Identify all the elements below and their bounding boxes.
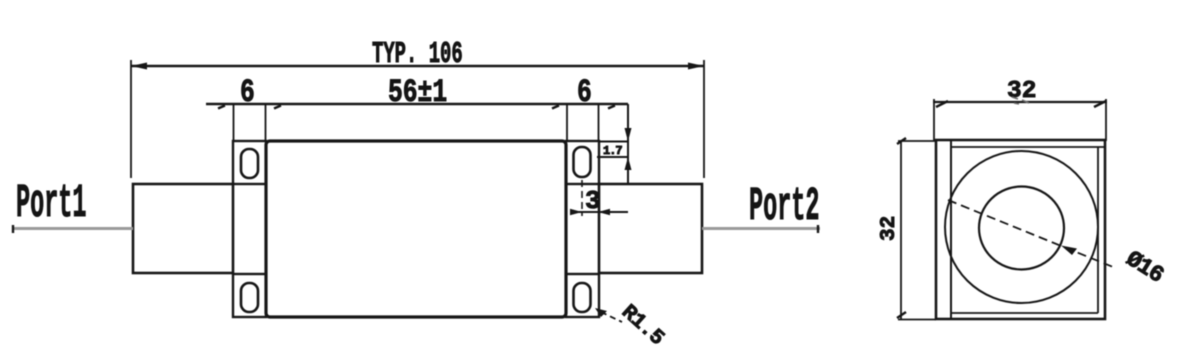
svg-text:Port2: Port2 xyxy=(749,181,819,234)
tick left of top dim xyxy=(936,101,948,107)
vertical dimension line at 628 xyxy=(627,104,629,185)
ear top-right xyxy=(566,141,599,184)
svg-text:6: 6 xyxy=(577,74,592,111)
slot top-right xyxy=(574,147,591,177)
svg-text:Port1: Port1 xyxy=(16,178,86,231)
arrow on diagonal at inner circle xyxy=(1061,246,1077,256)
svg-text:32: 32 xyxy=(1007,78,1036,105)
extension line at 265 xyxy=(265,104,267,142)
side view inner left line xyxy=(950,140,952,319)
slot bottom-left xyxy=(241,283,258,312)
tick at left fiber end xyxy=(12,225,14,233)
extension line right top xyxy=(1105,99,1107,141)
arrow up tip at 157 xyxy=(625,157,632,170)
extension line at 233 xyxy=(233,104,235,142)
body outline xyxy=(266,141,566,317)
tick mark near 598 xyxy=(608,106,615,109)
svg-text:32: 32 xyxy=(878,216,901,241)
small step line lower xyxy=(597,156,628,158)
leader arrow R1.5 xyxy=(595,308,607,317)
big circle xyxy=(945,151,1098,303)
tick mark near 566 xyxy=(552,106,559,109)
extension line bottom left xyxy=(898,319,936,321)
svg-text:6: 6 xyxy=(240,74,255,111)
side view inner top line xyxy=(951,146,1105,148)
dimension line for 3 xyxy=(570,211,628,213)
inner circle xyxy=(979,187,1064,270)
slot bottom-right xyxy=(574,283,591,312)
extension line left top xyxy=(933,99,935,141)
ear bottom-left xyxy=(233,274,266,317)
extension line right of TYP.106 xyxy=(703,60,705,178)
port block right xyxy=(599,184,702,273)
extension line at 598 xyxy=(598,104,600,142)
slot centerline dashed xyxy=(581,180,583,216)
slot top-left xyxy=(241,149,258,178)
svg-text:56±1: 56±1 xyxy=(388,74,447,111)
wire dimension line TYP.106 xyxy=(131,65,704,67)
svg-text:R1.5: R1.5 xyxy=(616,301,667,350)
side view left dimension line xyxy=(900,140,902,319)
port block left xyxy=(133,184,233,273)
arrowhead right of TYP.106 xyxy=(688,63,704,70)
extension line top left xyxy=(898,140,936,142)
arrow right tip at 582 xyxy=(570,209,582,215)
side view outer square xyxy=(936,140,1105,319)
ear bottom-right xyxy=(566,274,599,317)
dashed diagonal centerline xyxy=(948,200,1113,267)
fiber lead Port1 xyxy=(12,227,133,230)
tick mark near 265 xyxy=(274,106,281,109)
tick right of top dim xyxy=(1094,101,1106,107)
extension line at 566 xyxy=(566,104,568,142)
side view inner right line xyxy=(1097,147,1099,313)
side view top dimension line xyxy=(933,101,1107,103)
svg-text:Ø16: Ø16 xyxy=(1121,246,1168,289)
tick bottom of left dim xyxy=(897,312,906,318)
svg-text:1.7: 1.7 xyxy=(603,144,622,158)
extension line left of TYP.106 xyxy=(130,60,132,178)
arrow down tip at 141.5 xyxy=(625,128,632,142)
scan noise under 32 label xyxy=(1012,97,1029,104)
arrowhead left of TYP.106 xyxy=(131,63,147,70)
fiber lead Port2 xyxy=(702,227,820,230)
tick top of left dim xyxy=(897,138,906,144)
side view inner bottom line xyxy=(951,312,1098,314)
wire dimension line 6 / 56±1 / 6 xyxy=(206,103,628,105)
small step line at ear top extension xyxy=(599,141,628,143)
ear top-left xyxy=(233,141,266,184)
arrow left tip at 598 xyxy=(598,209,610,215)
svg-text:TYP. 106: TYP. 106 xyxy=(372,37,463,72)
tick at right fiber end xyxy=(817,225,819,233)
tick mark near 233 xyxy=(218,106,225,109)
leader dashes R1.5 xyxy=(601,312,622,322)
